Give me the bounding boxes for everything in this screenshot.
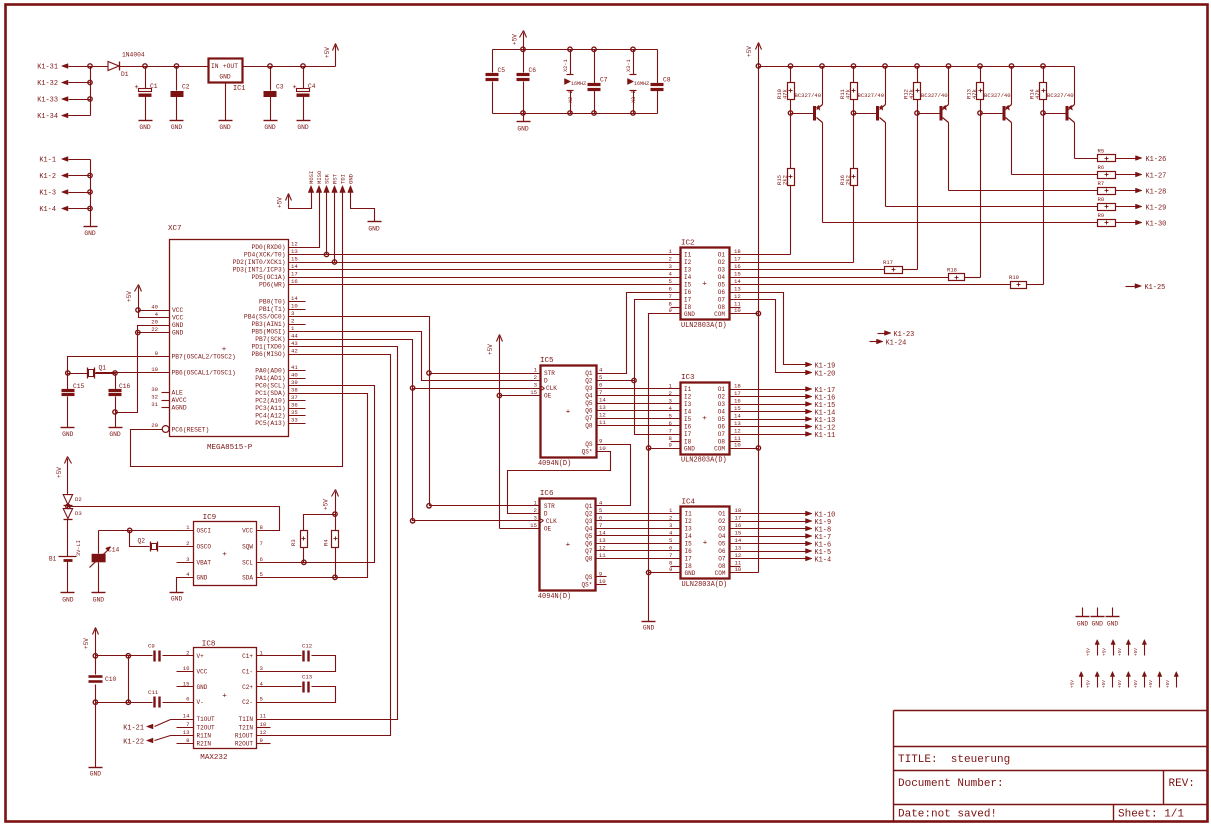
battery B1 [49,520,82,593]
svg-text:REV:: REV: [1169,778,1195,790]
junction at (90,208.5) [88,206,92,210]
stub IC8 T2IN R2OUT [257,728,271,744]
capacitor C1 [135,67,158,121]
wire IC3 output K1-17 [730,387,836,395]
transistor T2 BC328 [854,67,886,123]
capacitor C6 [517,50,537,114]
svg-text:GND: GND [172,322,184,329]
svg-text:SQW: SQW [242,543,253,550]
svg-text:PB6(MISO): PB6(MISO) [251,351,285,358]
wire OSC1 row [68,357,170,374]
title block frame [894,711,1208,822]
wire IC3 output K1-15 [730,402,836,410]
+5V arrow top left [335,51,337,67]
svg-text:VCC: VCC [172,315,184,322]
resistor R8 and output K1-29 [886,123,1167,213]
spare +5V arrow row2 #1 [1095,640,1099,656]
junction at (1043,66) [1041,64,1045,68]
junction at (90,82.5) [88,80,92,84]
svg-text:PD6(WR): PD6(WR) [259,281,285,288]
svg-text:+5V: +5V [83,638,90,649]
junction at (885.0,66) [883,64,887,68]
wire IC4 output K1-8 [730,526,832,534]
MCU right pin row y=385.5 [255,379,298,389]
resistor R16 [730,114,858,263]
driver IC3 ULN2803 box [681,374,730,465]
resistor R4 pullup SDA [323,515,339,578]
spare +5V arrow row3 #5 [1142,672,1146,688]
MCU right pin row y=331.5 [251,325,295,335]
svg-text:13: 13 [734,286,741,293]
driver IC4 ULN2803 box [681,499,730,590]
capacitor C12 loop [257,643,336,672]
MCU right pin row y=284.5 [259,278,298,288]
svg-text:2k2: 2k2 [782,175,789,185]
svg-text:C13: C13 [302,674,313,681]
connector pin K1-24 [870,339,907,347]
svg-text:GND: GND [197,574,208,581]
transistor T5 BC328 [1044,67,1075,123]
svg-text:K1-2: K1-2 [39,173,56,181]
svg-text:COM: COM [714,446,725,453]
MCU right pin row y=262 [233,256,299,266]
svg-text:C2-: C2- [242,699,253,706]
junction at (115,373) [113,371,117,375]
svg-text:GND: GND [109,431,121,438]
svg-text:OSCI: OSCI [197,527,212,534]
svg-text:Q5: Q5 [585,400,593,407]
svg-text:K1-31: K1-31 [37,64,58,72]
junction at (303.9,562.3) [302,560,306,564]
svg-text:+5V: +5V [126,291,133,302]
resistor R7 and output K1-28 [949,123,1167,197]
svg-text:12: 12 [260,729,267,736]
svg-text:K1-25: K1-25 [1145,284,1166,292]
ISP header pin RST [332,186,338,196]
svg-text:XC7: XC7 [168,225,182,233]
svg-text:K1-34: K1-34 [37,113,58,121]
svg-text:GND: GND [684,446,695,453]
junction at (633,113) [631,111,635,115]
svg-text:K1-21: K1-21 [123,724,144,732]
svg-text:+5V: +5V [277,197,284,208]
junction at (95.4,655.8) [93,654,97,658]
svg-text:3: 3 [186,556,190,563]
transistor T1 BC328 [791,67,823,123]
spare +5V arrow row3 #7 [1174,672,1178,688]
svg-text:+: + [702,415,707,423]
IC9 pin labels [186,524,263,582]
svg-text:O1: O1 [718,511,726,518]
svg-text:Q1: Q1 [99,365,107,372]
svg-text:O5: O5 [718,541,726,548]
svg-text:+: + [222,551,227,559]
connector pin K1-3 [39,190,90,198]
wire OSC2 row [68,373,170,374]
svg-text:COM: COM [715,570,726,577]
+5V label battery branch [56,467,63,478]
wire ISP reset loop [131,195,343,467]
wire MCU STR bus [289,317,540,506]
svg-text:Q7: Q7 [585,415,593,422]
svg-text:C1+: C1+ [242,653,253,660]
svg-text:R19: R19 [1009,274,1019,281]
svg-text:RST: RST [331,173,338,184]
svg-text:+: + [566,409,571,417]
svg-text:Q4: Q4 [585,393,593,400]
RTC IC9 box [194,514,257,586]
wire ISP pin3 [326,195,328,255]
stub IC2 I8 [671,307,681,309]
svg-text:GND: GND [264,124,276,131]
svg-text:MISO: MISO [316,170,323,184]
wire IC3 output K1-16 [730,394,836,402]
spare +5V arrow row3 #1 [1079,672,1083,688]
svg-text:10: 10 [599,578,606,585]
svg-text:VBAT: VBAT [197,559,212,566]
wire IC4 output K1-10 [730,511,836,519]
svg-text:5: 5 [599,374,603,381]
svg-text:V-: V- [197,699,204,706]
MCU right pin row y=415.5 [255,409,298,419]
connector pin K1-33 [37,97,90,105]
svg-text:3: 3 [669,263,673,270]
wire IC4 output K1-5 [730,549,832,557]
wire K1-1..4 bus vertical [90,160,92,227]
svg-text:+5V: +5V [487,344,494,355]
MCU right pin row y=354 [251,348,297,358]
svg-text:QS*: QS* [582,581,593,588]
junction at (570,113) [568,111,572,115]
svg-text:IC8: IC8 [202,641,216,649]
svg-text:X2-1: X2-1 [563,59,569,72]
resistor R10 [776,67,795,114]
svg-text:GND: GND [62,431,74,438]
svg-text:Date:not saved!: Date:not saved! [898,809,997,821]
svg-text:ALE: ALE [172,389,184,396]
MCU lower left stubs [151,386,187,411]
diode D3 [63,506,82,520]
connector pin K1-4 [39,206,90,214]
svg-text:+5V: +5V [1148,680,1154,688]
svg-text:+5V: +5V [746,46,753,57]
svg-text:+5V: +5V [324,47,331,58]
junction at (128.3,655.8) [126,654,130,658]
svg-text:GND: GND [90,771,102,778]
svg-text:20: 20 [151,319,158,326]
MCU right pin row y=301.5 [259,295,298,305]
MCU reset pin with circle [131,422,210,433]
ground under IC9 [170,593,184,603]
svg-text:PB7(SCK): PB7(SCK) [255,336,285,343]
svg-text:I2: I2 [684,394,692,401]
svg-text:PC3(A11): PC3(A11) [255,405,285,412]
svg-text:GND: GND [93,596,105,603]
svg-text:O8: O8 [718,563,726,570]
svg-text:I1: I1 [685,511,693,518]
resistor R19 [730,114,1044,289]
junction at (570,49.3) [568,47,572,51]
svg-text:I6: I6 [684,289,692,296]
MCU right pin row y=316.5 [244,310,295,320]
+5V arrow OE rail [497,335,503,343]
svg-text:C11: C11 [148,689,159,696]
svg-text:CLK: CLK [546,385,557,392]
svg-text:I7: I7 [685,556,693,563]
MCU right pin row y=346.5 [251,340,298,350]
stub IC3 I8 O8 [671,441,741,443]
svg-text:38: 38 [291,387,298,394]
svg-text:17: 17 [734,256,741,263]
svg-text:STR: STR [544,370,555,377]
junction at (334.5,262) [332,260,336,264]
svg-text:MOSI: MOSI [308,171,315,184]
svg-text:I8: I8 [684,439,692,446]
svg-text:+: + [293,84,297,92]
svg-text:42: 42 [291,348,298,355]
svg-text:Q1: Q1 [585,370,593,377]
svg-text:C12: C12 [302,643,312,650]
stub IC4 I8 O8 [671,566,741,568]
title block Date text [898,809,997,821]
junction at (633,49.3) [631,47,635,51]
svg-text:C3: C3 [276,84,284,91]
spare +5V arrow row3 #2 [1095,672,1099,688]
IC8 pin labels [183,649,267,747]
wire K1-3x bus vertical [90,67,92,116]
svg-text:K1-32: K1-32 [37,80,58,88]
svg-text:C2+: C2+ [242,684,253,691]
wire IC3 output K1-13 [730,417,836,425]
title block Sheet text [1118,809,1184,821]
MCU right pin row y=423 [255,417,298,427]
svg-text:SDA: SDA [242,574,253,581]
spare ground symbol 3 [1112,608,1114,617]
svg-text:GND: GND [171,596,183,603]
ground under C14 [92,593,106,604]
svg-text:T1OUT: T1OUT [197,716,216,723]
svg-text:O6: O6 [718,548,726,555]
svg-text:8: 8 [260,524,264,531]
MCU right pin row y=370.5 [255,364,298,374]
svg-text:ULN2803A(D): ULN2803A(D) [681,322,727,330]
svg-text:R7: R7 [1098,180,1105,187]
junction at (90,99) [88,97,92,101]
svg-text:Q2: Q2 [585,378,593,385]
svg-text:I3: I3 [685,526,693,533]
svg-text:12: 12 [291,241,298,248]
svg-text:31: 31 [151,401,158,408]
svg-text:K1-23: K1-23 [894,331,915,339]
svg-text:BC327/40: BC327/40 [795,92,822,99]
svg-text:I1: I1 [684,386,692,393]
svg-text:CLK: CLK [546,518,557,525]
svg-text:Q6: Q6 [585,540,593,547]
svg-text:4: 4 [186,571,190,578]
svg-text:X2-2: X2-2 [568,90,574,103]
IC4 pin labels [669,507,742,577]
wire to IC5 CLK [413,388,541,390]
title block Document Number text [898,778,1004,790]
svg-text:+5V: +5V [1117,648,1123,656]
svg-text:GND: GND [84,230,96,237]
connector pin K1-23 [878,331,915,339]
svg-text:14: 14 [183,713,190,720]
svg-text:AVCC: AVCC [172,397,187,404]
resistor R13 [966,67,984,114]
svg-text:Q1: Q1 [585,503,593,510]
svg-text:IC5: IC5 [540,357,554,365]
spare ground symbol 1 [1082,608,1084,617]
junction at (176.5,66) [174,64,178,68]
junction at (90,192) [88,190,92,194]
svg-text:1: 1 [669,248,673,255]
svg-text:Document Number:: Document Number: [898,778,1004,790]
svg-text:GND: GND [172,330,184,337]
wire IC3 output K1-11 [730,432,836,440]
svg-text:T2OUT: T2OUT [197,725,216,732]
svg-text:15: 15 [734,271,741,278]
IC2 pin labels [669,248,742,318]
connector pin K1-32 [37,80,90,88]
svg-text:IC2: IC2 [681,240,695,248]
wire ISP pin4 [334,195,336,263]
spare +5V arrow row2 #3 [1126,640,1130,656]
svg-text:GND: GND [197,684,208,691]
junction at (115,412) [113,410,117,414]
MCU right pin row y=247 [251,241,297,251]
svg-text:I3: I3 [684,401,692,408]
svg-text:C1: C1 [150,83,158,90]
wire IC9 GND [177,578,194,593]
svg-text:R2IN: R2IN [197,741,212,748]
svg-text:Q8: Q8 [585,555,593,562]
resistor R11 [839,67,858,114]
spare +5V arrow row3 #3 [1110,672,1114,688]
svg-text:O1: O1 [718,386,726,393]
MCU crystal pin rows [151,350,236,376]
junction at (129.7,530.4) [128,528,132,532]
svg-text:11: 11 [599,552,606,559]
MCU right pin row y=408 [255,402,298,412]
svg-text:PB1(T1): PB1(T1) [259,306,285,313]
svg-text:K1-29: K1-29 [1146,204,1167,212]
+5V label pullups [323,499,330,510]
ground under C1 [139,121,153,131]
svg-text:GND: GND [643,625,655,632]
wire IC3 output K1-14 [730,409,836,417]
svg-text:PB7(OSCAL2/TOSC2): PB7(OSCAL2/TOSC2) [172,353,236,360]
svg-text:3: 3 [534,382,538,389]
junction at (1011.5,66) [1009,64,1013,68]
ground under C2 [170,121,184,131]
capacitor C4 [293,67,316,121]
ISP header pin TDI [340,186,346,196]
svg-text:MAX232: MAX232 [200,754,227,762]
svg-text:Q3: Q3 [585,518,593,525]
svg-text:O4: O4 [718,274,726,281]
svg-text:9: 9 [599,438,602,445]
svg-text:47k: 47k [845,88,852,99]
svg-text:C4: C4 [308,83,316,90]
spare +5V arrow row3 #4 [1126,672,1130,688]
junction at (980,66) [978,64,982,68]
wire D1 to IC1 [120,66,209,68]
wire IC2 GND chain [649,314,681,622]
svg-text:Q7: Q7 [585,548,593,555]
jumper X1 [563,50,586,114]
svg-text:PD4(XCK/T0): PD4(XCK/T0) [244,251,286,258]
spare +5V arrow row2 #2 [1111,640,1115,656]
wire to IC5 STR [430,373,541,375]
transistor +5V rail wire [759,66,1075,68]
svg-text:GND: GND [1077,620,1089,627]
svg-text:K1-3: K1-3 [39,190,56,198]
svg-text:13: 13 [735,545,742,552]
junction at (917,66) [915,64,919,68]
svg-text:COM: COM [714,311,725,318]
wire IC2 O7 to K1-20 [730,300,836,379]
wire IC9 OSCI row [99,530,194,532]
ground under C3 [264,121,278,131]
svg-text:C6: C6 [529,67,537,74]
wire IC4 output K1-4 [730,556,832,564]
svg-text:2k2: 2k2 [845,175,852,185]
connector pin K1-25 [1126,284,1166,292]
svg-text:GND: GND [139,124,151,131]
svg-text:OSCO: OSCO [197,543,212,550]
svg-text:+5V: +5V [1086,648,1092,656]
svg-text:5: 5 [260,696,264,703]
wire ISP pin2 to MCU [289,195,320,248]
svg-text:+5V: +5V [1133,680,1139,688]
title block REV text [1169,778,1195,790]
IC6 pin labels [530,499,606,588]
junction at (758.4,313.5) [756,311,760,315]
resistor R5 and output K1-26 [1075,123,1167,164]
svg-text:PB4(SS/OC0): PB4(SS/OC0) [244,313,286,320]
svg-text:11: 11 [260,713,267,720]
svg-text:O6: O6 [718,424,726,431]
junction at (523,113) [521,111,525,115]
svg-text:C14: C14 [108,547,120,554]
wire MCU to MAX232 T1IN [257,347,398,720]
wire IC9 VCC loop [68,507,280,531]
spare +5V arrow row2 #4 [1142,640,1146,656]
svg-text:K1-11: K1-11 [815,432,836,440]
junction at (594,113) [592,111,596,115]
svg-text:12: 12 [734,428,741,435]
jumper X2 [626,50,649,114]
svg-text:K1-26: K1-26 [1146,156,1167,164]
resistor R18 [730,114,981,281]
svg-text:14: 14 [734,413,741,420]
stub IC8 T2OUT R2IN [177,728,194,744]
svg-text:R18: R18 [947,267,957,274]
svg-text:BC327/40: BC327/40 [921,92,948,99]
svg-text:PC0(SCL): PC0(SCL) [255,382,285,389]
wire IC5 QS cascade [596,445,631,506]
svg-text:C10: C10 [105,676,117,683]
svg-text:+5V: +5V [1070,680,1076,688]
junction at (917,113) [915,111,919,115]
svg-text:47k: 47k [1034,88,1041,99]
svg-text:O2: O2 [718,259,726,266]
microcontroller U1 XC7 box [168,225,289,452]
svg-text:C16: C16 [119,383,131,390]
svg-text:K1-33: K1-33 [37,97,58,105]
MCU right pin row y=393 [255,387,298,397]
